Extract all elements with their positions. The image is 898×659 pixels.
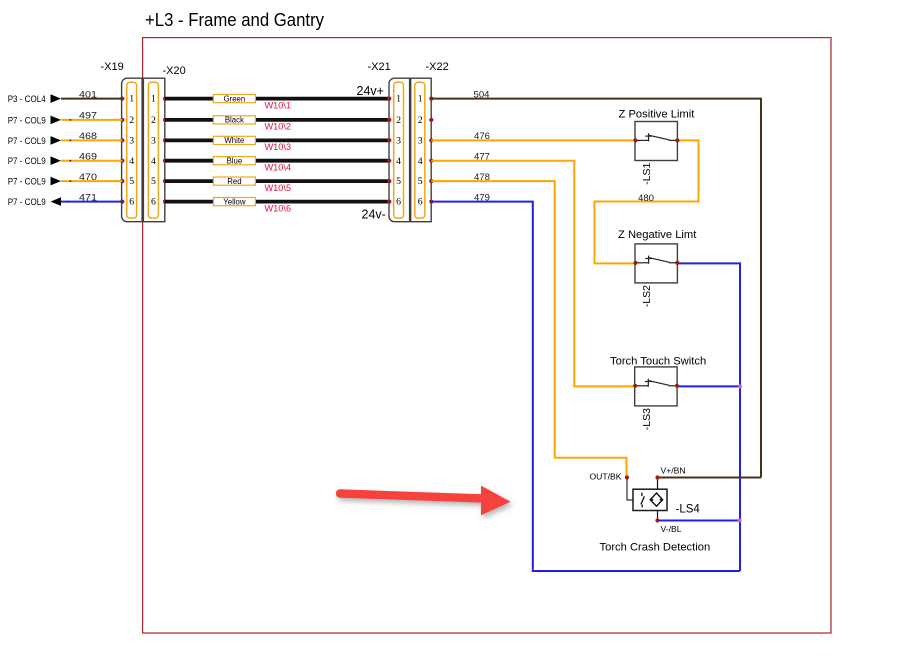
node V- terminal xyxy=(655,518,659,522)
svg-text:W10\1: W10\1 xyxy=(265,100,292,110)
cable wire W10\6 (Yellow) xyxy=(165,197,389,213)
svg-text:6: 6 xyxy=(151,197,156,208)
svg-text:2: 2 xyxy=(151,115,156,126)
svg-text:W10\3: W10\3 xyxy=(265,142,292,152)
svg-text:P7 - COL9: P7 - COL9 xyxy=(8,197,46,208)
svg-text:1: 1 xyxy=(151,94,156,105)
svg-text:-LS3: -LS3 xyxy=(641,408,653,430)
wire 477 (orange) xyxy=(431,152,635,387)
svg-text:Blue: Blue xyxy=(227,156,243,165)
wire V-/BL (blue) xyxy=(658,520,741,522)
limit switch -LS3 (Torch Touch Switch) xyxy=(610,355,706,430)
svg-text:W10\2: W10\2 xyxy=(265,122,292,132)
junction node LS3/bus xyxy=(738,384,742,388)
svg-text:-X22: -X22 xyxy=(426,61,449,73)
svg-text:24v-: 24v- xyxy=(362,208,386,222)
svg-text:24v+: 24v+ xyxy=(357,84,384,98)
cable wire W10\5 (Red) xyxy=(165,177,389,193)
title +L3 - Frame and Gantry xyxy=(145,9,325,30)
svg-text:-LS2: -LS2 xyxy=(641,285,653,307)
svg-text:504: 504 xyxy=(474,89,490,100)
svg-text:3: 3 xyxy=(129,136,134,147)
connector -X22 xyxy=(411,61,449,222)
node OUT terminal xyxy=(625,475,629,479)
svg-text:P3 - COL4: P3 - COL4 xyxy=(8,94,47,105)
svg-text:478: 478 xyxy=(474,172,490,183)
connector -X20 xyxy=(143,65,185,222)
svg-text:4: 4 xyxy=(418,156,423,167)
cable wire W10\1 (Green) xyxy=(165,94,389,110)
svg-text:W10\4: W10\4 xyxy=(265,163,292,173)
svg-text:P7 - COL9: P7 - COL9 xyxy=(8,115,46,126)
limit switch -LS1 (Z Positive Limit) xyxy=(619,109,696,185)
svg-text:-LS4: -LS4 xyxy=(676,504,701,516)
wire 497 with source label P7 - COL9 xyxy=(8,111,123,127)
cable wire W10\2 (Black) xyxy=(165,116,389,132)
svg-text:3: 3 xyxy=(151,136,156,147)
svg-text:468: 468 xyxy=(79,131,97,142)
junction node V-/bus xyxy=(738,519,742,523)
svg-text:White: White xyxy=(224,136,244,145)
cable wire W10\4 (Blue) xyxy=(165,156,389,172)
svg-text:1: 1 xyxy=(129,94,134,105)
svg-text:Red: Red xyxy=(227,177,241,186)
svg-text:5: 5 xyxy=(129,176,134,187)
wire 468 with source label P7 - COL9 xyxy=(8,131,123,147)
svg-text:1: 1 xyxy=(418,94,423,105)
svg-text:OUT/BK: OUT/BK xyxy=(590,472,622,482)
wire V+/BN (brown) xyxy=(658,477,762,479)
svg-text:6: 6 xyxy=(129,197,134,208)
svg-text:Z Negative Limt: Z Negative Limt xyxy=(618,229,697,241)
wire 470 with source label P7 - COL9 xyxy=(8,172,123,188)
wire 476 (orange) xyxy=(431,131,635,142)
svg-text:471: 471 xyxy=(79,192,97,203)
svg-text:5: 5 xyxy=(418,176,423,187)
svg-text:-X20: -X20 xyxy=(163,65,186,77)
proximity sensor -LS4 (Torch Crash Detection) xyxy=(590,466,711,554)
svg-text:476: 476 xyxy=(474,131,490,142)
svg-text:3: 3 xyxy=(418,136,423,147)
wire 401 with source label P3 - COL4 xyxy=(8,89,123,105)
svg-text:P7 - COL9: P7 - COL9 xyxy=(8,136,46,147)
svg-text:6: 6 xyxy=(418,197,423,208)
svg-text:1: 1 xyxy=(396,94,401,105)
svg-text:-X19: -X19 xyxy=(101,61,124,73)
svg-text:V-/BL: V-/BL xyxy=(661,524,682,534)
svg-text:4: 4 xyxy=(151,156,156,167)
svg-text:497: 497 xyxy=(79,111,97,122)
svg-text:4: 4 xyxy=(396,156,401,167)
wire 478 (orange) xyxy=(431,172,626,478)
svg-text:5: 5 xyxy=(396,176,401,187)
wire 471 with source label P7 - COL9 xyxy=(8,192,123,208)
wire blue LS3 output xyxy=(677,385,740,387)
svg-text:Torch Touch Switch: Torch Touch Switch xyxy=(610,355,706,367)
svg-text:-X21: -X21 xyxy=(368,61,391,73)
connector -X19 xyxy=(101,61,143,222)
svg-text:2: 2 xyxy=(396,115,401,126)
svg-text:401: 401 xyxy=(79,89,97,100)
connector -X21 xyxy=(357,61,410,222)
wire 480 (orange, LS1 to LS2) xyxy=(595,140,699,263)
svg-text:6: 6 xyxy=(396,197,401,208)
wire 479 (blue) xyxy=(431,192,740,571)
wire 504 (24v+ brown) xyxy=(431,89,761,477)
svg-text:470: 470 xyxy=(79,172,97,183)
svg-text:4: 4 xyxy=(129,156,134,167)
wire 469 with source label P7 - COL9 xyxy=(8,152,123,168)
svg-text:480: 480 xyxy=(638,193,654,204)
node V+ terminal xyxy=(655,475,659,479)
svg-text:Green: Green xyxy=(224,94,246,103)
cable wire W10\3 (White) xyxy=(165,136,389,152)
svg-text:Torch Crash Detection: Torch Crash Detection xyxy=(600,542,711,554)
svg-text:Yellow: Yellow xyxy=(223,197,246,206)
annotation red arrow xyxy=(340,486,511,516)
frame border +L3 xyxy=(143,38,831,633)
wire blue LS2 output to bottom bus xyxy=(677,263,740,571)
svg-text:P7 - COL9: P7 - COL9 xyxy=(8,156,46,167)
svg-text:V+/BN: V+/BN xyxy=(661,466,686,476)
svg-text:2: 2 xyxy=(129,115,134,126)
svg-text:3: 3 xyxy=(396,136,401,147)
svg-text:479: 479 xyxy=(474,192,490,203)
svg-text:W10\6: W10\6 xyxy=(265,203,292,213)
svg-text:-LS1: -LS1 xyxy=(641,162,653,184)
limit switch -LS2 (Z Negative Limt) xyxy=(618,229,697,307)
svg-text:469: 469 xyxy=(79,152,97,163)
svg-text:477: 477 xyxy=(474,152,490,163)
svg-text:W10\5: W10\5 xyxy=(265,183,292,193)
svg-text:5: 5 xyxy=(151,176,156,187)
svg-text:P7 - COL9: P7 - COL9 xyxy=(8,177,46,188)
svg-text:+L3 - Frame and Gantry: +L3 - Frame and Gantry xyxy=(145,9,325,30)
svg-text:Black: Black xyxy=(225,116,244,125)
svg-text:Z Positive Limit: Z Positive Limit xyxy=(619,109,696,121)
svg-text:2: 2 xyxy=(418,115,423,126)
